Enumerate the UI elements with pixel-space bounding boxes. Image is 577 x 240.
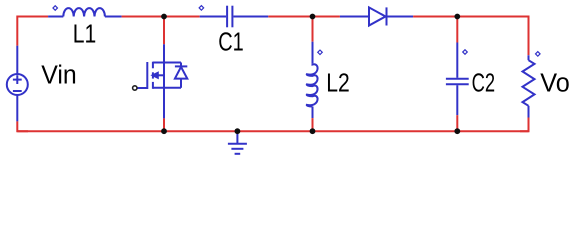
L2 polarity dot — [318, 50, 323, 55]
wire Vo to bottom-right corner — [520, 118, 529, 132]
C1 polarity dot — [199, 6, 204, 11]
resistor Vo (load) — [523, 55, 535, 117]
transistor Q1 (MOSFET with body diode) — [137, 44, 187, 118]
node top of L2 — [310, 14, 316, 20]
wire C1 to diode (through node) — [268, 16, 340, 18]
ground — [228, 131, 247, 154]
wire C2 to bottom rail — [456, 115, 458, 131]
node bottom of C2 — [454, 128, 460, 134]
svg-text:Vin: Vin — [41, 62, 76, 90]
L1 polarity dot — [53, 6, 58, 11]
node top of C2 — [454, 14, 460, 20]
node ground — [235, 128, 241, 134]
wire Vin to bottom-left corner — [17, 121, 28, 131]
inductor L2 — [307, 42, 318, 118]
node bottom of L2 — [310, 128, 316, 134]
voltage source Vin — [7, 46, 28, 122]
capacitor C2 — [446, 43, 469, 116]
Vo polarity dot — [536, 52, 541, 57]
wire L1 to C1 (through node) — [122, 16, 200, 18]
svg-text:L1: L1 — [73, 21, 97, 49]
svg-text:L2: L2 — [326, 69, 350, 97]
wire drain to top rail — [163, 17, 165, 45]
wire top rail to C2 — [456, 17, 458, 43]
wire bottom rail — [17, 130, 528, 132]
wire L2 to bottom rail — [312, 118, 314, 131]
diode D1 — [340, 7, 413, 25]
C2 polarity dot — [463, 50, 468, 55]
wire source to bottom rail — [163, 118, 165, 131]
node top of Q1 — [161, 14, 167, 20]
svg-text:Vo: Vo — [540, 69, 570, 97]
wire top rail to L2 — [312, 17, 314, 42]
svg-text:C2: C2 — [472, 70, 496, 98]
inductor L1 — [48, 8, 122, 16]
wire diode to top-right corner (through node) — [413, 16, 528, 18]
wire top-right corner to Vo resistor — [520, 17, 529, 56]
wire top-left corner to L1 — [17, 17, 48, 46]
capacitor C1 — [200, 6, 269, 28]
node bottom of Q1 — [161, 128, 167, 134]
Q1 gate terminal circle — [133, 86, 137, 90]
svg-text:C1: C1 — [218, 29, 244, 57]
